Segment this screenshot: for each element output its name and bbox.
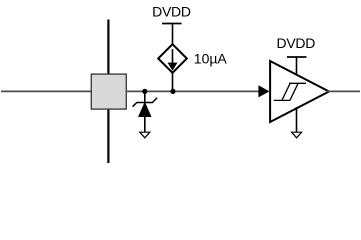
svg-text:10µA: 10µA (194, 50, 228, 66)
current source I1 arrow shaft (172, 49, 174, 64)
hysteresis symbol lower line (274, 99, 290, 101)
ground symbol (zener) (140, 132, 150, 138)
input arrowhead into buffer (258, 85, 269, 97)
DVDD supply bar (buffer) (287, 56, 307, 58)
zener diode D1 anode triangle (139, 103, 151, 117)
schmitt buffer U1 triangle (270, 61, 329, 122)
current source I1 diamond (158, 44, 187, 73)
wire supply to diamond (172, 24, 174, 46)
current source I1 arrow head (168, 63, 178, 71)
node junction zener (142, 89, 147, 94)
wire supply to buffer top (296, 57, 298, 76)
svg-text:DVDD: DVDD (152, 3, 191, 19)
wire vertical through pad (107, 20, 109, 164)
svg-text:DVDD: DVDD (277, 35, 316, 51)
wire diamond to node (172, 73, 174, 92)
hysteresis symbol left slant (282, 83, 290, 100)
wire buffer bottom to ground (296, 107, 298, 132)
wire middle (126, 90, 260, 92)
node junction current source (170, 89, 175, 94)
pad cell (gray box) (91, 74, 126, 109)
hysteresis symbol right slant (290, 83, 298, 100)
hysteresis symbol upper line (289, 82, 306, 84)
wire input left (1, 90, 92, 92)
DVDD supply bar (current source) (162, 23, 182, 25)
wire zener anode lead (144, 117, 146, 133)
ground symbol (buffer) (292, 132, 302, 138)
wire zener cathode lead (144, 91, 146, 102)
wire output (327, 90, 360, 92)
zener diode D1 cathode bar (133, 98, 158, 107)
